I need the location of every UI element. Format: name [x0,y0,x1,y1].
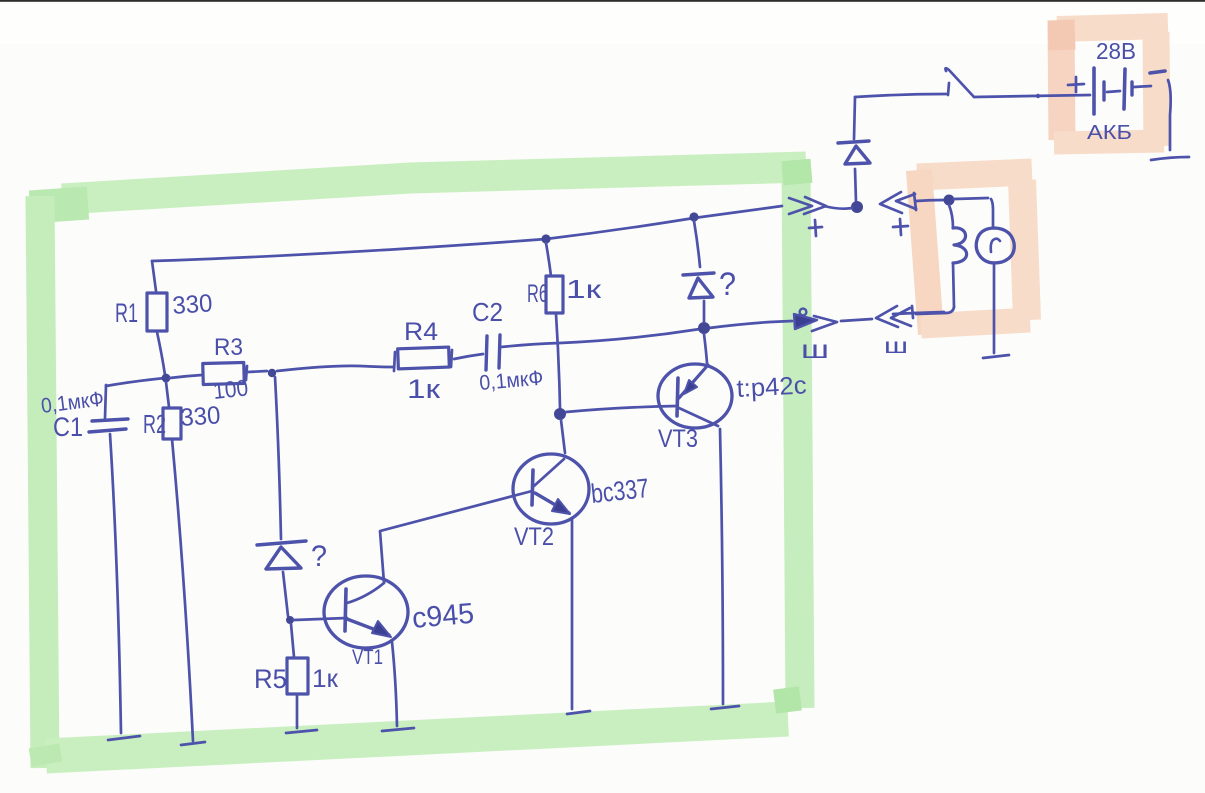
wire R6 down to node I [556,314,560,408]
svg-text:R2: R2 [143,409,166,439]
battery GB1 plate long 1 [1092,68,1096,114]
VT3 collector stroke [679,408,718,426]
capacitor C2 left plate [486,336,487,370]
resistor R4 body [398,347,450,369]
capacitor C1 top plate [92,419,128,421]
node H junction [286,616,294,624]
svg-text:VT1: VT1 [352,646,383,669]
orange battery top band [1057,26,1168,29]
orange battery bottom band [1054,141,1164,143]
board arrow chevron (Ш line) [812,316,837,331]
battery GB1 plate short 1 [1102,82,1105,100]
wire R2 down [172,439,193,741]
node G rail-diode junction blob [698,322,710,334]
wire node B down to coil [949,205,953,228]
cable arrow left-chevron 2 (Ш line) [891,308,911,326]
svg-text:t:p42c: t:p42c [736,371,807,403]
diode VD3 triangle [266,547,301,569]
wire R1 to node E [157,332,165,375]
orange relay right band [1022,180,1027,320]
resistor R3 right lead tick [246,366,247,380]
green frame top-left corner blob [30,203,88,207]
wire VT1 emitter down [392,642,397,726]
node B relay junction blob [944,195,955,206]
VT1 base bar [345,589,346,631]
svg-text:1к: 1к [312,665,339,693]
cable arrow tail (Ш line) [893,306,915,318]
capacitor C2 right plate [499,335,500,368]
orange relay left band [919,170,931,334]
VT3 emitter arrowhead (PNP, pointing to base) [684,380,697,394]
R2 ground tick [181,742,205,745]
resistor R1 body [147,293,167,331]
VT2 base bar [532,470,533,505]
switch S1 blade [945,68,974,97]
transistor VT3 circle [658,364,732,428]
wire VD1 to node A [855,169,856,202]
base rail node F to R4 [277,366,393,371]
relay motor circle M1 [976,228,1014,263]
wire VD2 to node G [703,301,706,322]
diode VD1 cathode bar [838,141,869,143]
green frame left band [40,196,45,768]
svg-text:ш: ш [801,336,829,364]
svg-text:100: 100 [212,374,250,404]
green frame top band [62,167,806,199]
wire switch corner down [854,97,855,139]
svg-text:330: 330 [179,401,221,432]
svg-text:VT2: VT2 [514,523,554,551]
wire node A stub left [824,206,852,209]
wire top rail corner to R1 [152,261,156,291]
wire coil down [953,263,954,307]
connector arrow left-pointing chevron 1 (+ line) [880,192,902,213]
transistor VT2 circle [513,454,589,524]
wire R6 top from node C [546,243,551,276]
capacitor C1 bottom plate [89,429,126,432]
svg-text:1к: 1к [566,274,602,304]
battery GB1 mid squiggle [1107,91,1120,92]
capacitor C1 top wire [105,385,106,418]
plus label right of node A [893,219,908,235]
green frame bottom band [46,719,788,756]
green corner accent bottom-right [786,688,789,712]
plus label left of node A [809,220,822,236]
resistor R5 body [287,658,308,694]
svg-text:1к: 1к [407,374,440,404]
resistor R4 left lead tick [394,352,395,371]
motor ground tick [983,355,1009,358]
svg-text:R4: R4 [404,318,438,346]
VT3 base bar [677,378,678,416]
wire C2 to VT3 rail [501,329,700,347]
svg-text:ш: ш [884,335,908,358]
svg-text:c945: c945 [411,598,476,635]
node I junction blob [554,408,566,420]
wire node B right [954,198,988,199]
orange battery right band [1156,32,1157,146]
wire R4 to C2 [454,354,483,359]
green corner accent top-right [796,160,798,184]
scan border line top [0,0,1205,2]
battery GB1 plate short 2 [1130,82,1133,95]
diode VD3 cathode bar [257,541,306,545]
resistor R3 body [203,362,245,384]
cable arrow left-chevron 1 (Ш line) [876,306,898,327]
node C top rail junction 1 [541,234,550,243]
top rail wire [152,206,782,261]
wire coil bottom corner left [916,307,954,314]
resistor R4 right lead tick [451,350,452,367]
wire dash between arrows (Ш line) [841,319,872,321]
board arrow filled head (Ш line) [794,314,817,329]
C1 ground tick [108,736,140,740]
diode VD2 triangle [689,278,713,298]
svg-text:C2: C2 [472,297,503,327]
wire switch to battery [974,95,1090,97]
orange accent top-left [1061,20,1062,50]
svg-text:28В: 28В [1096,38,1136,64]
wire down to motor circle [991,199,993,228]
wire node G to VT3 top [704,334,707,363]
VT1 ground tick [382,728,414,731]
R5 ground tick [286,730,317,733]
wire VT2 emitter down [571,518,574,709]
VT3 ground tick [711,706,739,709]
junction dot on battery wire [1036,94,1040,98]
wire battery right down [1168,80,1171,150]
VT2 emitter arrowhead [552,499,570,514]
wire node H to VT1 base [294,618,347,620]
transistor VT1 circle [324,576,408,648]
wire node H to R5 [291,624,294,657]
VT1 emitter stroke [347,619,389,635]
VT2 collector stroke [534,459,564,486]
wire arrow tail to relay coil [915,312,944,313]
board arrow loop [800,309,807,316]
battery plus sign [1068,77,1084,92]
svg-text:?: ? [719,266,736,302]
svg-text:C1: C1 [53,412,83,442]
svg-text:?: ? [311,540,327,573]
orange battery left band [1061,26,1062,140]
switch S1 contact tick [948,83,949,95]
wire node I to VT2 collector [561,420,565,453]
connector arrow tail bar [914,193,916,210]
resistor R2 body [163,408,181,439]
svg-text:АКБ: АКБ [1087,122,1132,144]
green frame right band [796,166,800,708]
wire rail to lower arrow [709,321,792,328]
VT2 emitter stroke [535,493,569,513]
wire VT1 collector up to VT2 base [380,491,532,583]
orange relay top band [917,172,1032,177]
connector arrow left-pointing chevron 2 (+ line) [896,194,916,209]
wire arrow to relay node [916,200,944,201]
svg-text:R6: R6 [527,280,548,308]
wire node E to R2 [166,382,169,407]
wire node F down to VD3 [275,377,281,539]
svg-text:VT3: VT3 [658,425,698,453]
svg-text:R5: R5 [254,664,287,694]
VT1 emitter arrowhead [372,621,391,637]
wire R3 to node F [248,371,267,372]
wire VD3 to node H [283,572,288,616]
battery minus sign [1150,71,1165,73]
VT2 ground tick [567,711,590,714]
node A junction blob [851,201,863,213]
wire motor down [993,264,996,353]
orange relay bottom band [921,320,1030,326]
battery return terminal tick [1151,157,1189,160]
VT1 collector stroke [347,583,384,603]
wire battery to minus [1134,86,1151,87]
wire switch left segment [855,94,946,97]
svg-text:R1: R1 [115,298,138,328]
battery GB1 plate long 2 [1124,69,1125,109]
wire R5 down [296,694,299,728]
motor inner r mark [991,239,1000,252]
base rail from C1 [106,378,165,386]
wire node E to R3 [170,375,202,378]
node E junction [162,374,171,383]
node F junction [268,369,276,377]
wire VT3 collector down [720,429,723,704]
connector arrow right-pointing chevron 1 (+ line) [789,198,812,214]
connector arrow right-pointing chevron 2 (+ line) [804,197,826,214]
relay coil K1 bumps [953,228,967,263]
node D top rail junction 2 [689,212,698,221]
wire node I to VT3 base [566,406,677,412]
green corner accent bottom-left [44,746,47,764]
VT3 emitter stroke (to top) [679,365,708,398]
svg-text:330: 330 [171,289,213,320]
wire C1 down [110,434,121,733]
resistor R6 body [546,276,563,313]
diode VD2 cathode bar [683,273,714,275]
svg-text:R3: R3 [214,334,243,361]
diode VD1 triangle [845,146,870,164]
svg-text:bc337: bc337 [589,473,650,509]
wire node D down to VD2 [694,221,700,267]
